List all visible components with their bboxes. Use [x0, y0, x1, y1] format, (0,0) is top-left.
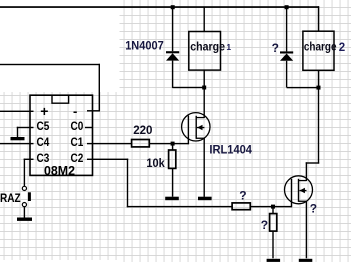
- wire drain down into mosfet Q2: [306, 162, 307, 181]
- svg-text:C2: C2: [71, 151, 84, 165]
- diode D2 ? (cathode up to rail): [280, 7, 293, 87]
- wire rail corner down to charge2 top: [318, 6, 320, 31]
- wire C4 pin to left edge: [0, 143, 34, 144]
- wire source down to ground: [204, 138, 205, 197]
- node junction dot gate net 1: [171, 142, 175, 146]
- ground vertical resistor: [267, 259, 281, 262]
- svg-text:1: 1: [226, 42, 231, 52]
- wire drain net 2 down and jog left: [318, 88, 319, 164]
- wire drain down from junction: [204, 88, 205, 119]
- wire - riser: [99, 64, 100, 111]
- node junction dot gate net 2: [271, 205, 275, 209]
- channel bar Q2: [298, 179, 299, 202]
- wire bottom gate bus: [127, 206, 232, 207]
- svg-text:?: ?: [310, 201, 317, 215]
- wire C3 pin down to RAZ switch: [24, 159, 34, 160]
- pin stub C0: [85, 127, 92, 128]
- svg-text:?: ?: [261, 218, 268, 232]
- svg-text:+: +: [40, 103, 48, 119]
- mosfet Q2: [285, 162, 313, 258]
- svg-text:08M2: 08M2: [44, 164, 75, 178]
- body stub with arrow: [197, 127, 205, 128]
- wire diode D1 bottom to junction: [173, 87, 205, 88]
- charge2 load box: [303, 31, 334, 70]
- wire charge1 top connection: [204, 7, 205, 32]
- svg-text:-: -: [73, 104, 77, 119]
- svg-text:C3: C3: [37, 151, 50, 165]
- wire C5 pin to ground: [17, 127, 34, 128]
- pin stub C2 wire to bottom bus: [87, 159, 128, 160]
- pushbutton RAZ: [22, 186, 31, 217]
- node junction dot on rail above diode D2: [285, 5, 289, 9]
- svg-text:C5: C5: [37, 119, 50, 133]
- charge1 load box: [189, 32, 221, 71]
- svg-text:1N4007: 1N4007: [125, 38, 164, 52]
- ground mosfet Q2 source: [299, 259, 313, 262]
- svg-text:220: 220: [133, 123, 153, 137]
- channel bar: [196, 116, 197, 139]
- svg-text:IRL1404: IRL1404: [209, 142, 252, 156]
- svg-text:?: ?: [239, 188, 246, 202]
- resistor R? vertical pulldown: [270, 207, 277, 259]
- node junction dot on rail above diode D1: [171, 5, 175, 9]
- source stub Q2: [299, 201, 307, 202]
- svg-text:RAZ: RAZ: [0, 191, 21, 205]
- ground RAZ: [17, 218, 32, 221]
- wire resistor to gate 2: [251, 206, 292, 207]
- node junction dot drain net 2: [317, 86, 321, 90]
- resistor R? horizontal: [232, 203, 250, 210]
- wire charge1 bottom to junction: [204, 70, 205, 88]
- IC notch: [52, 96, 69, 103]
- gate bar: [188, 116, 189, 145]
- ground C5: [11, 137, 25, 140]
- ground mosfet Q1 source: [198, 197, 212, 201]
- svg-text:10k: 10k: [146, 156, 165, 170]
- ground resistor 10k: [165, 197, 179, 201]
- resistor 10k: [169, 144, 176, 197]
- drain stub: [196, 117, 204, 118]
- pin stub - pin: [87, 110, 100, 111]
- body stub with arrow Q2: [299, 190, 306, 191]
- wire - net to left edge: [0, 64, 100, 65]
- IC U1 PICAXE 08M2 body: [30, 95, 93, 175]
- gate bar Q2: [291, 179, 292, 208]
- svg-text:2: 2: [339, 42, 345, 54]
- mosfet Q1 IRL1404: [182, 88, 210, 197]
- svg-text:C4: C4: [37, 135, 50, 149]
- wire + pin to left edge: [0, 111, 34, 112]
- svg-text:charge: charge: [304, 39, 337, 53]
- wire source Q2 down to ground: [306, 201, 307, 258]
- svg-text:C1: C1: [71, 135, 84, 149]
- diode D1 1N4007 (cathode up to rail): [166, 7, 179, 88]
- source stub: [196, 138, 204, 139]
- svg-text:?: ?: [272, 41, 279, 55]
- svg-text:C0: C0: [71, 119, 84, 133]
- drain stub Q2: [299, 180, 307, 181]
- wire diode D2 bottom to junction: [287, 87, 319, 88]
- resistor 220: [87, 140, 189, 147]
- wire top +V rail: [0, 6, 319, 8]
- wire charge2 bottom to junction: [318, 70, 320, 88]
- svg-text:charge: charge: [190, 39, 225, 53]
- node junction dot drain net 1: [202, 86, 206, 90]
